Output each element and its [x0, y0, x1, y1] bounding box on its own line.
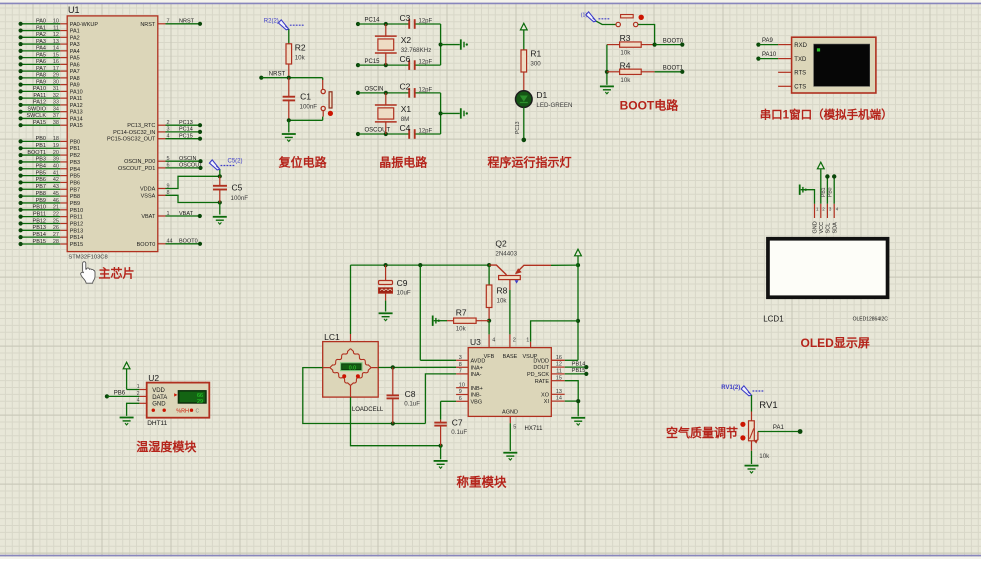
- svg-text:HX711: HX711: [525, 426, 544, 432]
- svg-text:PB10: PB10: [70, 208, 83, 214]
- svg-text:STM32F103C8: STM32F103C8: [68, 255, 107, 261]
- svg-text:PB13: PB13: [33, 225, 46, 231]
- svg-text:PB8: PB8: [70, 194, 80, 200]
- svg-text:PB12: PB12: [33, 218, 46, 224]
- svg-text:VSSA: VSSA: [141, 193, 156, 199]
- svg-text:Q2: Q2: [495, 238, 507, 248]
- svg-text:PB5: PB5: [36, 170, 46, 176]
- svg-text:XI: XI: [544, 399, 550, 405]
- svg-text:10uF: 10uF: [397, 290, 411, 297]
- svg-text:PA12: PA12: [70, 103, 83, 109]
- svg-text:PA14: PA14: [70, 116, 83, 122]
- svg-text:PB6: PB6: [70, 180, 80, 186]
- svg-text:PB14: PB14: [70, 235, 83, 241]
- svg-text:PA11: PA11: [70, 96, 83, 102]
- svg-text:7: 7: [167, 19, 170, 25]
- svg-text:LC1: LC1: [324, 332, 340, 342]
- svg-text:PA0: PA0: [36, 19, 46, 25]
- svg-text:PA10: PA10: [33, 86, 46, 92]
- svg-text:300: 300: [530, 61, 541, 68]
- svg-text:PA6: PA6: [70, 62, 80, 68]
- svg-text:晶振电路: 晶振电路: [379, 155, 428, 170]
- svg-text:PA7: PA7: [70, 69, 80, 75]
- svg-text:AVDD: AVDD: [471, 358, 486, 364]
- svg-text:OLED12864I2C: OLED12864I2C: [853, 317, 889, 323]
- svg-text:PA15: PA15: [70, 123, 83, 129]
- svg-text:0.0: 0.0: [349, 366, 356, 372]
- svg-text:称重模块: 称重模块: [457, 474, 508, 489]
- svg-text:12: 12: [556, 362, 562, 368]
- svg-text:NRST: NRST: [140, 22, 156, 28]
- svg-text:U3: U3: [470, 337, 481, 347]
- svg-text:9: 9: [459, 389, 462, 395]
- svg-text:C: C: [196, 408, 200, 414]
- svg-text:10k: 10k: [497, 298, 508, 305]
- svg-text:3: 3: [459, 355, 462, 361]
- svg-text:6: 6: [167, 163, 170, 169]
- svg-text:19: 19: [53, 143, 59, 149]
- svg-text:26: 26: [53, 225, 59, 231]
- svg-text:PB0: PB0: [36, 136, 46, 142]
- svg-text:DATA: DATA: [152, 395, 167, 401]
- svg-text:12pF: 12pF: [419, 88, 433, 94]
- svg-text:D1: D1: [536, 90, 547, 100]
- svg-text:VDDA: VDDA: [140, 187, 156, 193]
- svg-text:22: 22: [53, 211, 59, 217]
- svg-text:空气质量调节: 空气质量调节: [666, 425, 738, 440]
- svg-text:PC13_RTC: PC13_RTC: [127, 123, 155, 129]
- svg-text:PB15: PB15: [70, 242, 83, 248]
- svg-text:PB13: PB13: [70, 228, 83, 234]
- svg-text:SDA: SDA: [832, 222, 838, 234]
- svg-text:C7: C7: [452, 418, 463, 428]
- svg-text:PA10: PA10: [762, 52, 777, 58]
- svg-text:PB0: PB0: [70, 139, 80, 145]
- svg-text:BOOT1: BOOT1: [27, 150, 46, 156]
- svg-text:复位电路: 复位电路: [278, 155, 328, 170]
- svg-text:PA6: PA6: [36, 59, 46, 65]
- svg-text:C6: C6: [400, 54, 411, 64]
- svg-text:C1: C1: [300, 92, 311, 102]
- svg-text:38: 38: [53, 120, 59, 126]
- svg-text:PB4: PB4: [36, 164, 46, 170]
- svg-text:44: 44: [167, 239, 173, 245]
- svg-text:32.768KHz: 32.768KHz: [401, 47, 432, 54]
- svg-text:BOOT0: BOOT0: [137, 242, 156, 248]
- svg-text:PB8: PB8: [36, 191, 46, 197]
- svg-text:PB5: PB5: [70, 174, 80, 180]
- svg-text:OSCIN_PD0: OSCIN_PD0: [124, 159, 155, 165]
- svg-text:PA1: PA1: [773, 425, 785, 431]
- svg-text:2: 2: [167, 120, 170, 126]
- svg-text:PB14: PB14: [33, 232, 46, 238]
- svg-text:LOADCELL: LOADCELL: [352, 407, 384, 413]
- svg-text:39: 39: [53, 157, 59, 163]
- svg-text:12pF: 12pF: [419, 60, 433, 66]
- svg-text:29: 29: [53, 73, 59, 79]
- svg-text:BOOT电路: BOOT电路: [620, 98, 680, 113]
- svg-text:PA8: PA8: [70, 76, 80, 82]
- svg-text:INA-: INA-: [471, 372, 482, 378]
- svg-text:C2: C2: [400, 82, 411, 92]
- svg-text:OLED显示屏: OLED显示屏: [801, 336, 870, 350]
- svg-text:BOOT0: BOOT0: [179, 239, 198, 245]
- svg-text:OSCOUT: OSCOUT: [179, 163, 203, 169]
- svg-text:PA13: PA13: [70, 110, 83, 116]
- svg-text:温湿度模块: 温湿度模块: [136, 439, 197, 454]
- svg-text:C4: C4: [400, 123, 411, 133]
- svg-text:PB3: PB3: [70, 160, 80, 166]
- svg-text:PB6: PB6: [36, 177, 46, 183]
- svg-text:PB15: PB15: [33, 239, 46, 245]
- svg-text:40: 40: [53, 164, 59, 170]
- svg-text:PA12: PA12: [33, 100, 46, 106]
- svg-text:C5(2): C5(2): [228, 159, 243, 165]
- svg-text:PB6: PB6: [114, 390, 126, 396]
- svg-text:1: 1: [526, 338, 529, 344]
- svg-text:RXD: RXD: [794, 43, 807, 49]
- svg-text:DVDD: DVDD: [533, 358, 549, 364]
- svg-text:PA1: PA1: [36, 25, 46, 31]
- svg-text:CTS: CTS: [794, 85, 806, 91]
- svg-text:10k: 10k: [620, 77, 631, 84]
- svg-text:C3: C3: [400, 13, 411, 23]
- svg-text:PB2: PB2: [70, 153, 80, 159]
- svg-text:45: 45: [53, 191, 59, 197]
- svg-text:25: 25: [53, 218, 59, 224]
- svg-text:串口1窗口（模拟手机端）: 串口1窗口（模拟手机端）: [760, 108, 893, 122]
- svg-text:RATE: RATE: [535, 379, 550, 385]
- svg-text:PB7: PB7: [70, 187, 80, 193]
- svg-text:主芯片: 主芯片: [99, 266, 135, 281]
- svg-text:8M: 8M: [401, 116, 410, 123]
- svg-text:PB4: PB4: [70, 167, 80, 173]
- svg-text:INB+: INB+: [471, 386, 483, 392]
- svg-text:PA9: PA9: [70, 83, 80, 89]
- svg-text:RV1(2): RV1(2): [721, 385, 740, 391]
- svg-text:32: 32: [53, 93, 59, 99]
- svg-text:SCL: SCL: [826, 223, 832, 234]
- svg-text:8: 8: [459, 362, 462, 368]
- svg-text:PC14-OSC32_IN: PC14-OSC32_IN: [113, 130, 155, 136]
- svg-text:TXD: TXD: [794, 57, 807, 63]
- svg-text:PB14: PB14: [572, 361, 585, 367]
- svg-text:R8: R8: [497, 286, 508, 296]
- svg-text:BOOT1: BOOT1: [663, 66, 684, 72]
- svg-text:14: 14: [556, 396, 562, 402]
- svg-text:18: 18: [53, 136, 59, 142]
- svg-text:DHT11: DHT11: [147, 420, 167, 427]
- svg-text:14: 14: [53, 46, 59, 52]
- svg-text:PA3: PA3: [36, 39, 46, 45]
- svg-text:NRST: NRST: [179, 19, 195, 25]
- svg-text:4: 4: [167, 134, 170, 140]
- svg-text:16: 16: [556, 355, 562, 361]
- svg-text:C5: C5: [232, 183, 243, 193]
- svg-text:PA3: PA3: [70, 42, 80, 48]
- svg-text:30: 30: [53, 79, 59, 85]
- svg-text:4: 4: [492, 338, 495, 344]
- svg-text:BASE: BASE: [503, 354, 518, 360]
- svg-text:U2: U2: [148, 373, 159, 383]
- svg-text:20: 20: [53, 150, 59, 156]
- svg-text:VCC: VCC: [819, 222, 825, 234]
- svg-text:31: 31: [53, 86, 59, 92]
- svg-text:10k: 10k: [620, 50, 631, 57]
- svg-text:2: 2: [513, 338, 516, 344]
- svg-text:PA11: PA11: [33, 93, 46, 99]
- svg-text:PB1: PB1: [70, 146, 80, 152]
- svg-text:%RH: %RH: [176, 409, 189, 415]
- svg-text:13: 13: [556, 389, 562, 395]
- svg-text:10k: 10k: [759, 453, 770, 460]
- svg-text:0.1uF: 0.1uF: [451, 429, 467, 436]
- svg-text:PA15: PA15: [33, 120, 46, 126]
- svg-text:28: 28: [53, 239, 59, 245]
- svg-text:PB12: PB12: [70, 221, 83, 227]
- svg-text:R1: R1: [530, 49, 541, 59]
- svg-text:R7: R7: [456, 308, 467, 318]
- svg-text:33: 33: [53, 100, 59, 106]
- svg-text:PB9: PB9: [70, 201, 80, 207]
- svg-text:10k: 10k: [295, 55, 306, 62]
- svg-text:5: 5: [167, 156, 170, 162]
- svg-text:PA4: PA4: [70, 49, 80, 55]
- svg-text:29: 29: [197, 399, 203, 405]
- svg-text:42: 42: [53, 177, 59, 183]
- svg-text:PA5: PA5: [36, 52, 46, 58]
- svg-text:VBAT: VBAT: [179, 211, 194, 217]
- svg-text:X2: X2: [401, 35, 412, 45]
- svg-text:C8: C8: [405, 389, 416, 399]
- svg-text:C9: C9: [397, 278, 408, 288]
- svg-text:16: 16: [53, 59, 59, 65]
- svg-text:7: 7: [459, 369, 462, 375]
- svg-text:PB3: PB3: [36, 157, 46, 163]
- svg-text:PA10: PA10: [70, 89, 83, 95]
- svg-text:17: 17: [53, 66, 59, 72]
- svg-text:PA2: PA2: [36, 32, 46, 38]
- svg-text:PA9: PA9: [36, 79, 46, 85]
- svg-text:R2(2): R2(2): [264, 18, 279, 24]
- svg-text:BOOT0: BOOT0: [663, 38, 684, 44]
- svg-text:PB11: PB11: [70, 215, 83, 221]
- svg-text:PB9: PB9: [36, 198, 46, 204]
- svg-text:LCD1: LCD1: [763, 315, 784, 324]
- svg-text:OSCIN: OSCIN: [365, 87, 384, 93]
- svg-text:SWDIO: SWDIO: [27, 106, 46, 112]
- svg-text:PB15: PB15: [572, 368, 585, 374]
- svg-text:6: 6: [459, 396, 462, 402]
- svg-text:R4: R4: [620, 60, 631, 70]
- svg-text:13: 13: [53, 39, 59, 45]
- svg-text:PA4: PA4: [36, 46, 46, 52]
- svg-text:PA1: PA1: [70, 29, 80, 35]
- svg-text:SWCLK: SWCLK: [26, 113, 46, 119]
- svg-text:11: 11: [556, 369, 562, 375]
- svg-text:PB1: PB1: [36, 143, 46, 149]
- svg-text:12pF: 12pF: [419, 19, 433, 25]
- svg-text:37: 37: [53, 113, 59, 119]
- svg-text:PB11: PB11: [33, 211, 46, 217]
- svg-text:46: 46: [53, 198, 59, 204]
- svg-text:PA7: PA7: [36, 66, 46, 72]
- svg-text:5: 5: [513, 425, 516, 431]
- svg-text:12pF: 12pF: [419, 129, 433, 135]
- svg-text:21: 21: [53, 205, 59, 211]
- svg-text:PC15: PC15: [365, 59, 381, 65]
- svg-text:PB1: PB1: [821, 187, 827, 197]
- svg-text:12: 12: [53, 32, 59, 38]
- svg-text:PC15: PC15: [179, 134, 193, 140]
- svg-text:PB7: PB7: [36, 184, 46, 190]
- svg-text:GND: GND: [152, 402, 166, 408]
- svg-text:INB-: INB-: [471, 393, 482, 399]
- svg-text:PC14: PC14: [365, 18, 381, 24]
- svg-text:INA+: INA+: [471, 365, 483, 371]
- svg-text:PA0-WKUP: PA0-WKUP: [70, 22, 99, 28]
- svg-text:3: 3: [167, 127, 170, 133]
- svg-text:0.1uF: 0.1uF: [404, 400, 420, 407]
- svg-text:RTS: RTS: [794, 71, 806, 77]
- svg-text:VDD: VDD: [152, 388, 165, 394]
- svg-text:VBAT: VBAT: [141, 214, 156, 220]
- svg-text:PC14: PC14: [179, 127, 193, 133]
- svg-text:11: 11: [53, 25, 59, 31]
- svg-text:NRST: NRST: [269, 71, 286, 77]
- svg-text:100nF: 100nF: [231, 195, 249, 202]
- svg-text:10: 10: [53, 19, 59, 25]
- svg-text:R3: R3: [620, 33, 631, 43]
- svg-text:DOUT: DOUT: [533, 365, 549, 371]
- svg-text:PB0: PB0: [828, 187, 834, 197]
- svg-text:2N4403: 2N4403: [495, 250, 517, 257]
- svg-text:GND: GND: [813, 221, 819, 233]
- svg-text:41: 41: [53, 170, 59, 176]
- svg-text:LED-GREEN: LED-GREEN: [536, 102, 572, 109]
- svg-text:PC15-OSC32_OUT: PC15-OSC32_OUT: [107, 137, 156, 143]
- svg-text:PD_SCK: PD_SCK: [527, 372, 549, 378]
- svg-text:43: 43: [53, 184, 59, 190]
- svg-text:OSCOUT_PD1: OSCOUT_PD1: [118, 166, 155, 172]
- svg-text:PA5: PA5: [70, 56, 80, 62]
- svg-text:1: 1: [137, 384, 140, 390]
- svg-text:PA8: PA8: [36, 73, 46, 79]
- svg-text:PA2: PA2: [70, 35, 80, 41]
- svg-text:27: 27: [53, 232, 59, 238]
- svg-text:XO: XO: [541, 392, 550, 398]
- svg-text:15: 15: [556, 375, 562, 381]
- svg-text:程序运行指示灯: 程序运行指示灯: [488, 155, 572, 170]
- svg-text:15: 15: [53, 52, 59, 58]
- svg-text:PC13: PC13: [515, 121, 521, 134]
- svg-text:PA9: PA9: [762, 38, 774, 44]
- svg-text:10: 10: [459, 382, 465, 388]
- svg-text:RV1: RV1: [759, 400, 777, 411]
- svg-text:PC13: PC13: [179, 120, 193, 126]
- svg-text:100nF: 100nF: [300, 104, 318, 111]
- svg-text:34: 34: [53, 106, 59, 112]
- svg-text:U1: U1: [68, 5, 80, 15]
- svg-text:VBG: VBG: [471, 399, 483, 405]
- svg-text:10k: 10k: [456, 326, 467, 333]
- svg-text:1: 1: [167, 211, 170, 217]
- svg-text:X1: X1: [401, 104, 412, 114]
- svg-text:OSCIN: OSCIN: [179, 156, 196, 162]
- svg-text:PB10: PB10: [33, 205, 46, 211]
- svg-text:AGND: AGND: [502, 409, 518, 415]
- svg-text:R2: R2: [295, 43, 306, 53]
